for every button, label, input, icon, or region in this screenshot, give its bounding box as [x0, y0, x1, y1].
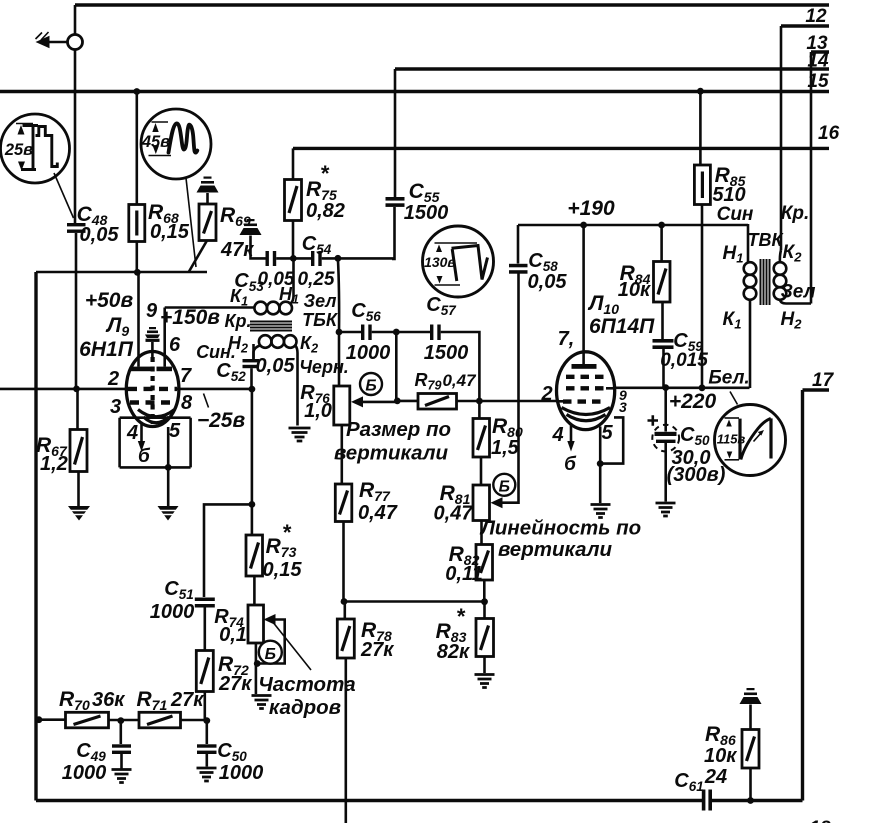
- svg-text:9: 9: [146, 300, 158, 322]
- svg-text:0,05: 0,05: [80, 224, 120, 246]
- capacitor C57: [430, 325, 433, 341]
- svg-text:0,05: 0,05: [258, 269, 295, 290]
- capacitor C58: [517, 225, 520, 264]
- wire C56 node down to R76: [338, 332, 341, 386]
- transformer TVK core: [761, 259, 770, 305]
- capacitor C53: [266, 251, 269, 266]
- svg-text:0,25: 0,25: [298, 269, 335, 290]
- tube L9 anode bars: [131, 367, 151, 372]
- wire C56C57 node down: [395, 332, 398, 401]
- node R74 wiper junction: [254, 660, 261, 667]
- svg-text:2: 2: [540, 383, 552, 405]
- wire node to C57: [396, 331, 430, 334]
- capacitor C51: [195, 598, 215, 602]
- node pin7 junction: [580, 222, 587, 229]
- svg-text:Черн.: Черн.: [299, 357, 349, 377]
- svg-text:Кр.: Кр.: [224, 311, 251, 331]
- tube L9 center shield dashed: [151, 357, 155, 424]
- capacitor C54: [311, 251, 314, 266]
- node pin5 junction: [597, 460, 604, 467]
- svg-text:ТВК: ТВК: [747, 230, 784, 250]
- wire +190 line: [518, 224, 748, 227]
- wire cathode to ground L10: [599, 464, 602, 503]
- svg-text:3: 3: [110, 396, 121, 418]
- svg-text:27к: 27к: [170, 689, 204, 711]
- resistor R82: [476, 545, 493, 581]
- waveform circle 45v: [141, 109, 211, 179]
- svg-text:24: 24: [704, 766, 727, 788]
- node junction R68 bottom: [134, 269, 141, 276]
- wire sync network line y272: [36, 271, 207, 274]
- R74 wiper arrow: [264, 614, 276, 625]
- svg-text:17: 17: [812, 370, 835, 391]
- node C56 branch junction: [335, 255, 342, 262]
- wire to C51 corner: [204, 504, 252, 597]
- leader 25v circle: [54, 173, 74, 218]
- svg-text:*: *: [456, 604, 466, 629]
- wire C53 to C54: [276, 257, 311, 260]
- svg-text:8: 8: [181, 392, 193, 414]
- capacitor C55: [386, 197, 405, 201]
- svg-text:Линейность по: Линейность по: [479, 517, 641, 540]
- tube L10 anode bar: [572, 364, 597, 369]
- wire C48 to grid: [75, 233, 78, 389]
- R76 wiper arrow: [351, 396, 363, 407]
- leader chastota: [272, 621, 311, 670]
- tube L10 cathode arcs: [562, 408, 611, 415]
- tube L9 cathode arcs: [138, 410, 175, 417]
- svg-text:0,47: 0,47: [442, 371, 477, 390]
- svg-text:0,05: 0,05: [528, 271, 568, 293]
- wire top line to terminal 12: [75, 3, 829, 6]
- wire line 14 bracket: [811, 50, 829, 53]
- svg-text:Размер по: Размер по: [346, 418, 451, 441]
- wire C55 bottom: [392, 207, 395, 259]
- resistor R73: [246, 535, 263, 576]
- node R79 right junction: [476, 398, 483, 405]
- resistor R75: [292, 148, 295, 179]
- resistor R79: [397, 400, 418, 403]
- node junction R68 on bus: [133, 88, 140, 95]
- wire line 17 from R75: [293, 147, 829, 150]
- svg-text:вертикали: вертикали: [498, 538, 613, 561]
- chassis arrow symbol: [36, 36, 50, 48]
- wire grid line of L9: [0, 388, 128, 391]
- waveform circle 25v: [1, 114, 70, 183]
- node cathode box junction: [165, 464, 172, 471]
- waveform circle 115v: [730, 392, 738, 405]
- svg-text:1500: 1500: [424, 342, 469, 364]
- transformer TVK secondary coil: [774, 262, 787, 275]
- wire C53 left: [251, 236, 266, 259]
- svg-text:6Н1П: 6Н1П: [79, 338, 134, 361]
- svg-text:Б: Б: [365, 378, 376, 395]
- capacitor C59: [653, 339, 674, 343]
- svg-text:1000: 1000: [219, 762, 264, 784]
- resistor R78: [343, 602, 346, 620]
- node C56 left junction: [336, 329, 343, 336]
- svg-text:+50в: +50в: [85, 289, 134, 312]
- wire pin4 heater arrow: [140, 423, 143, 443]
- ground under C60: [656, 503, 676, 516]
- wire pin5: [167, 427, 170, 467]
- svg-text:510: 510: [712, 184, 745, 206]
- svg-text:+190: +190: [567, 197, 615, 220]
- svg-text:Частота: Частота: [258, 673, 355, 696]
- ground K2 chern: [289, 428, 311, 441]
- circle B near R81: [493, 474, 515, 496]
- wire input terminal vertical: [74, 5, 77, 224]
- node R86 junction: [747, 797, 754, 804]
- circle B near R76: [360, 373, 382, 395]
- svg-text:14: 14: [807, 51, 829, 72]
- leader -25v: [204, 394, 209, 408]
- node C51 R73 junction: [249, 501, 256, 508]
- node C59 C60 junction: [662, 384, 669, 391]
- capacitor C56: [361, 325, 364, 341]
- svg-text:36к: 36к: [92, 689, 125, 711]
- svg-text:Зел: Зел: [781, 282, 816, 303]
- resistor R68: [136, 92, 139, 205]
- svg-text:1000: 1000: [346, 342, 391, 364]
- wire bottom return line left part: [36, 799, 703, 802]
- svg-text:б: б: [138, 446, 151, 467]
- svg-text:3: 3: [619, 399, 627, 415]
- node C56 C57 junction: [393, 329, 400, 336]
- svg-text:0,11: 0,11: [445, 563, 482, 585]
- wire R73 branch: [251, 504, 254, 535]
- svg-text:5: 5: [169, 420, 181, 442]
- svg-text:2: 2: [107, 368, 119, 390]
- wire pin6 riser: [163, 308, 166, 367]
- wire line 15 from C55: [395, 67, 829, 70]
- node grid right junction: [249, 386, 256, 393]
- svg-text:Бел.: Бел.: [708, 368, 749, 389]
- wire bias line: [344, 600, 485, 603]
- svg-text:27к: 27к: [360, 639, 394, 661]
- chassis symbol above C53: [240, 228, 262, 235]
- svg-text:12: 12: [805, 6, 827, 27]
- resistor R77: [335, 484, 352, 522]
- wire TVK Zel lead vertical: [810, 52, 813, 304]
- svg-text:Зел: Зел: [304, 291, 337, 311]
- transformer TBK core: [250, 322, 292, 331]
- wire C52 node down to C51 R73 junction: [251, 389, 254, 504]
- tube L9 cathode chassis symbol: [149, 327, 156, 329]
- svg-text:вертикали: вертикали: [334, 442, 449, 465]
- transformer TBK secondary coil: [259, 335, 272, 348]
- tube L9 grid dashes row1: [128, 387, 177, 391]
- svg-text:45в: 45в: [141, 133, 170, 151]
- svg-text:47к: 47к: [220, 239, 254, 261]
- node R75 bottom junction: [290, 255, 297, 262]
- svg-text:Кр.: Кр.: [781, 203, 810, 224]
- ground under R83: [475, 675, 495, 688]
- wire Bel line: [615, 386, 750, 389]
- svg-text:4: 4: [126, 422, 138, 444]
- wire cathode box: [120, 418, 191, 468]
- resistor R83: [483, 602, 486, 619]
- tube L9 grid dashes row2: [130, 400, 175, 404]
- capacitor C49: [120, 721, 123, 744]
- svg-text:6: 6: [169, 334, 181, 356]
- leader 45v circle: [186, 178, 196, 267]
- svg-text:0,05: 0,05: [256, 355, 296, 377]
- wire TBK secondary right K2 to ground: [296, 346, 298, 426]
- svg-text:0,47: 0,47: [434, 503, 474, 525]
- wire right border vertical line 18: [801, 390, 804, 801]
- circle B near R74: [259, 641, 282, 664]
- wire pin4 heater arrow L10: [570, 424, 573, 443]
- svg-text:*: *: [320, 161, 330, 186]
- svg-text:0,15: 0,15: [150, 221, 190, 243]
- node R85 bottom junction: [699, 384, 706, 391]
- potentiometer R74: [248, 605, 264, 643]
- wire pin7 anode stem: [582, 225, 585, 365]
- ground under L10: [591, 505, 611, 518]
- svg-text:7: 7: [180, 365, 192, 387]
- svg-text:27к: 27к: [218, 673, 252, 695]
- svg-text:5: 5: [601, 422, 613, 444]
- capacitor C48: [67, 223, 86, 226]
- capacitor C61 in bottom line: [702, 790, 706, 811]
- terminal circle: [68, 35, 83, 50]
- node R71 right junction: [203, 717, 210, 724]
- svg-text:0,82: 0,82: [306, 200, 345, 222]
- wire bottom return line right part: [711, 799, 803, 802]
- svg-text:6П14П: 6П14П: [589, 315, 655, 338]
- svg-text:0,47: 0,47: [358, 502, 398, 524]
- ground under C50: [197, 768, 217, 781]
- svg-text:Б: Б: [265, 646, 276, 663]
- wire beam plate hook: [600, 417, 623, 463]
- svg-text:0,15: 0,15: [263, 559, 303, 581]
- node R70 left junction: [36, 716, 43, 723]
- svg-text:1,5: 1,5: [491, 437, 520, 459]
- wire line 18 stub to edge: [803, 388, 830, 391]
- svg-text:0,1: 0,1: [219, 624, 247, 646]
- wire to C56: [339, 331, 361, 334]
- wire line 13 from TVK secondary K2: [781, 24, 829, 27]
- node R78 junction: [341, 598, 348, 605]
- svg-text:(300в): (300в): [667, 464, 726, 486]
- svg-text:7,: 7,: [558, 328, 575, 350]
- svg-text:10к: 10к: [704, 745, 737, 767]
- svg-text:Син: Син: [717, 204, 754, 225]
- resistor R80: [478, 401, 481, 419]
- transformer TBK primary coil: [254, 302, 267, 315]
- wire C56 to node: [372, 331, 397, 334]
- resistor R85: [699, 91, 702, 165]
- wire TVK K2 red lead vertical: [780, 26, 783, 250]
- resistor R67: [76, 389, 79, 430]
- node C48 grid junction: [73, 386, 80, 393]
- svg-text:4: 4: [551, 424, 563, 446]
- svg-text:1500: 1500: [404, 202, 449, 224]
- ground under L9: [158, 506, 179, 521]
- potentiometer R81: [473, 485, 490, 521]
- svg-text:+150в: +150в: [160, 306, 220, 329]
- resistor R84: [660, 225, 663, 262]
- svg-text:16: 16: [818, 123, 840, 144]
- resistor R72: [196, 651, 213, 692]
- wire C57 corner down: [441, 332, 480, 401]
- svg-text:−25в: −25в: [197, 409, 246, 432]
- ground under R74: [252, 696, 272, 709]
- svg-text:б: б: [564, 454, 577, 475]
- wire TBK primary right to C53-C54 node: [291, 258, 294, 303]
- chassis symbol above R69: [197, 186, 219, 193]
- wire pin5 L10: [599, 427, 602, 464]
- resistor R70: [36, 718, 66, 721]
- tube L9 envelope: [126, 352, 179, 427]
- wire TVK secondary bottom Zel: [780, 300, 811, 304]
- svg-text:*: *: [282, 520, 292, 545]
- svg-text:1000: 1000: [62, 762, 107, 784]
- wire to ground: [167, 467, 170, 506]
- plus sign C60: [648, 415, 659, 426]
- tube L10 grid rows: [566, 375, 604, 379]
- wire C54 to C55: [322, 257, 395, 260]
- transformer TVK primary bottom: [749, 300, 752, 389]
- capacitor C52: [252, 344, 255, 359]
- svg-text:кадров: кадров: [269, 696, 341, 719]
- wire TBK secondary left to C52: [254, 346, 261, 360]
- wire C54 node down to C56 line: [338, 258, 339, 332]
- ground under R67: [68, 506, 90, 521]
- wire to chassis arrow: [48, 41, 68, 44]
- svg-text:1,2: 1,2: [40, 453, 68, 475]
- wire TVK secondary top to line 13: [780, 250, 781, 263]
- svg-text:1,0: 1,0: [304, 400, 332, 422]
- wire R76 to R77: [340, 425, 343, 484]
- node R70 R71 junction: [117, 717, 124, 724]
- svg-text:18: 18: [809, 818, 831, 823]
- node junction R85 on bus: [697, 88, 704, 95]
- node R84 junction: [658, 222, 665, 229]
- wire bus line 16 full width: [0, 90, 829, 93]
- svg-text:Б: Б: [499, 478, 510, 495]
- wire C51 to R72: [204, 608, 207, 651]
- potentiometer R76: [334, 386, 350, 425]
- svg-text:1000: 1000: [150, 601, 195, 623]
- wire pin9 riser: [137, 272, 140, 366]
- svg-text:130в: 130в: [424, 254, 456, 270]
- wire C55 top vertical: [394, 69, 397, 198]
- transformer TVK primary top: [747, 224, 750, 262]
- R81 wiper arrow from C58: [491, 497, 503, 508]
- svg-text:+220: +220: [669, 390, 717, 413]
- waveform circle 130v: [423, 226, 494, 297]
- capacitor C60 electrolytic: [664, 388, 667, 432]
- resistor R71: [139, 712, 181, 728]
- tube L10 envelope: [557, 352, 615, 430]
- node R76 wiper junction: [394, 398, 401, 405]
- svg-text:25в: 25в: [4, 141, 33, 159]
- chassis symbol above R86: [740, 697, 762, 704]
- svg-text:10к: 10к: [618, 279, 651, 301]
- svg-text:ТБК: ТБК: [302, 310, 339, 330]
- transformer TVK primary coil: [744, 262, 757, 275]
- ground under C49: [112, 770, 132, 783]
- transformer TBK primary wire from pin6: [165, 306, 255, 309]
- svg-text:15: 15: [807, 71, 829, 92]
- svg-text:82к: 82к: [437, 641, 470, 663]
- wire left border vertical: [34, 272, 37, 801]
- capacitor C50: [206, 721, 209, 744]
- resistor R86: [749, 768, 752, 801]
- resistor R69: [199, 204, 216, 241]
- node R83 junction: [481, 598, 488, 605]
